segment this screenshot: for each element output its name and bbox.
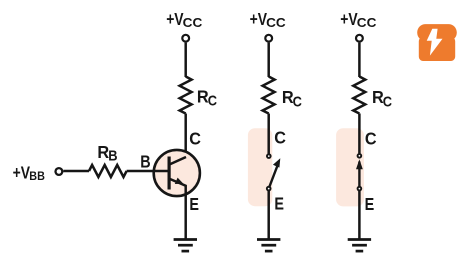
resistor RC (circuit 1) [180,77,192,114]
wire RC to switch C terminal (circuit 3) [358,114,361,154]
highlight: open-switch region [248,128,272,206]
svg-text:C: C [293,94,303,110]
svg-text:C: C [208,94,218,110]
svg-text:CC: CC [266,15,286,30]
svg-text:+V: +V [250,9,268,29]
label RC (circuit 1) [197,86,217,109]
label +VCC (circuit 3) [340,9,377,30]
switch S2 (closed): C terminal [358,154,362,158]
switch S1 (open): lever with arrow [269,158,281,188]
switch S2 (closed): E terminal [358,187,362,191]
switch S2 (closed): conducting path with arrow [356,159,363,188]
label +VCC (circuit 2) [250,9,287,30]
switch S1 (open): E terminal [267,187,271,191]
svg-text:E: E [274,193,284,213]
ground (circuit 1) [174,240,197,252]
label RC (circuit 3) [372,87,392,110]
svg-text:+V: +V [340,9,358,29]
resistor RC (circuit 2) [263,77,275,114]
terminal +VCC (circuit 2) [265,35,272,42]
wire RC to switch C terminal [267,114,270,154]
terminal +VBB [56,168,63,175]
wire VCC to RC (circuit 3) [358,43,361,77]
wire switch to ground (circuit 3) [358,191,361,240]
svg-text:C: C [274,127,286,147]
resistor RC (circuit 3) [353,77,365,114]
wire VBB to RB [63,170,89,173]
wire emitter to ground [184,185,187,240]
svg-text:C: C [365,128,377,148]
wire RC to collector [184,114,187,159]
wire RB to base [127,170,170,173]
label RC (circuit 2) [282,87,302,110]
wire VCC to RC (circuit 1) [184,43,187,77]
svg-text:CC: CC [183,15,203,30]
wire VCC to RC (circuit 2) [267,43,270,77]
ground (circuit 3) [348,240,371,252]
svg-text:E: E [189,194,199,214]
ground (circuit 2) [257,240,280,252]
label RB [97,142,117,165]
logo: Circuit Bread toast icon [417,24,457,61]
svg-text:CC: CC [357,15,377,30]
svg-text:BB: BB [29,169,45,183]
wire switch to ground (circuit 2) [267,191,270,240]
svg-text:E: E [365,194,375,214]
svg-text:+V: +V [166,9,184,29]
svg-text:C: C [189,129,201,149]
terminal +VCC (circuit 3) [356,35,363,42]
transistor Q1 [154,150,200,196]
svg-text:B: B [140,152,150,172]
svg-text:B: B [108,148,117,164]
svg-text:+V: +V [13,163,31,183]
svg-text:C: C [383,94,393,110]
resistor RB [89,165,127,177]
highlight: closed-switch region [336,128,364,206]
terminal +VCC (circuit 1) [182,35,189,42]
switch S1 (open): C terminal [267,154,271,158]
label +VBB [13,163,46,183]
label +VCC (circuit 1) [166,9,203,30]
